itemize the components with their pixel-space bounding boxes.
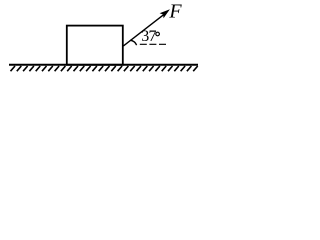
force arrow F shaft: [123, 15, 163, 46]
svg-text:F: F: [168, 1, 182, 23]
svg-text:37: 37: [141, 28, 156, 45]
block (rectangle on surface): [67, 26, 123, 65]
degree symbol: [156, 32, 160, 36]
ground surface line: [9, 64, 198, 66]
force arrowhead: [160, 9, 170, 18]
ground hatching: [11, 66, 198, 71]
dashed horizontal reference line: [140, 43, 168, 45]
angle arc: [130, 40, 136, 45]
